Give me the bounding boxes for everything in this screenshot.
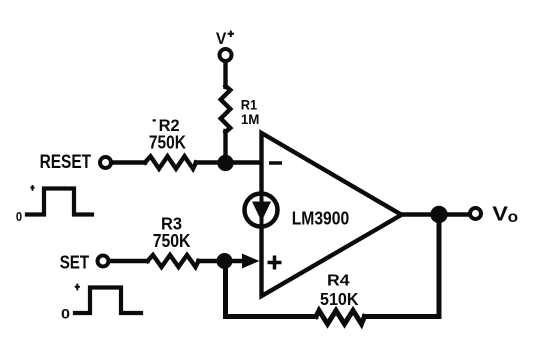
svg-text:R4: R4 <box>327 272 350 289</box>
svg-text:o: o <box>508 209 518 226</box>
svg-text:LM3900: LM3900 <box>292 207 350 228</box>
svg-text:510K: 510K <box>320 289 359 309</box>
svg-text:1M: 1M <box>241 112 260 127</box>
svg-text:750K: 750K <box>153 230 191 251</box>
svg-text:SET: SET <box>60 251 89 272</box>
svg-text:V: V <box>492 202 508 225</box>
svg-text:R1: R1 <box>241 98 258 113</box>
svg-text:RESET: RESET <box>40 151 92 173</box>
svg-text:V: V <box>216 30 227 48</box>
svg-text:750K: 750K <box>149 132 187 153</box>
svg-text:0: 0 <box>16 210 22 224</box>
svg-text:0: 0 <box>61 306 70 322</box>
